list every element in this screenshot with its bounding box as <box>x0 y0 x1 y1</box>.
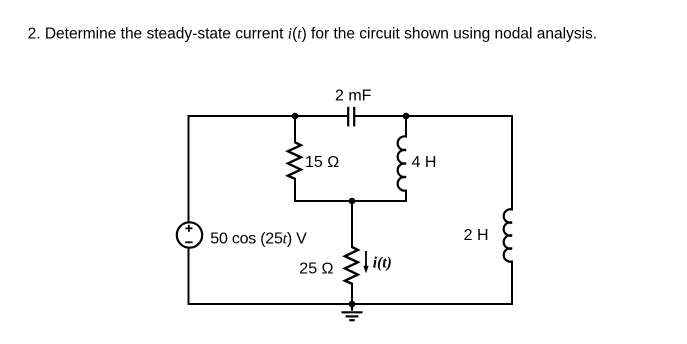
voltage source plus sign <box>185 225 192 232</box>
node D junction dot bottom <box>349 301 356 308</box>
svg-text:4 H: 4 H <box>412 154 437 171</box>
wire: left side upper <box>188 116 190 221</box>
current arrow i(t) <box>363 251 368 273</box>
wire: right side lower <box>511 262 513 305</box>
svg-text:2 mF: 2 mF <box>335 87 372 104</box>
resistor 25 ohm zigzag <box>345 247 358 284</box>
wire: 15-ohm branch bottom <box>294 179 296 201</box>
wire: right side upper <box>511 116 513 210</box>
svg-text:50 cos (25t) V: 50 cos (25t) V <box>210 230 307 247</box>
wire: 25-ohm branch bottom <box>351 284 353 304</box>
wire: top-left segment <box>189 115 349 117</box>
svg-text:15 Ω: 15 Ω <box>305 154 339 171</box>
resistor 15 ohm zigzag <box>288 142 301 179</box>
wire: 15-ohm branch top <box>294 116 296 142</box>
voltage source VS circle <box>177 222 202 247</box>
wire: bottom <box>189 303 513 305</box>
wire: 4H branch bottom <box>405 191 407 202</box>
node B junction dot top-right <box>403 113 410 120</box>
svg-text:i(t): i(t) <box>373 255 392 272</box>
svg-text:2 H: 2 H <box>464 227 489 244</box>
inductor 2H coils <box>504 209 512 261</box>
wire: left side lower <box>188 249 190 304</box>
wire: inner bottom <box>295 200 406 202</box>
voltage source minus sign <box>185 241 192 243</box>
svg-text:2. Determine the steady-state: 2. Determine the steady-state current i(… <box>28 25 598 42</box>
inductor 4H coils <box>398 136 406 190</box>
ground symbol <box>342 304 363 320</box>
svg-text:25 Ω: 25 Ω <box>299 261 333 278</box>
capacitor C 2mF plates <box>348 107 354 127</box>
wire: 4H branch top <box>405 116 407 137</box>
node A junction dot top-left <box>292 113 299 120</box>
wire: 25-ohm branch top <box>351 201 353 247</box>
wire: top-right segment <box>355 115 512 117</box>
node C junction dot middle <box>349 198 356 205</box>
